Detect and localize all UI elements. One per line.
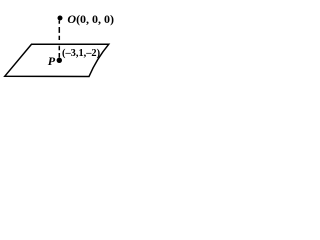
dashed line from O to P bbox=[58, 21, 60, 58]
svg-text:O(0, 0, 0): O(0, 0, 0) bbox=[67, 12, 114, 26]
point O dot bbox=[58, 16, 63, 21]
point P dot bbox=[57, 58, 62, 63]
svg-text:P: P bbox=[48, 54, 56, 68]
plane quadrilateral bbox=[5, 44, 109, 76]
svg-text:(–3,1,–2): (–3,1,–2) bbox=[62, 48, 100, 59]
